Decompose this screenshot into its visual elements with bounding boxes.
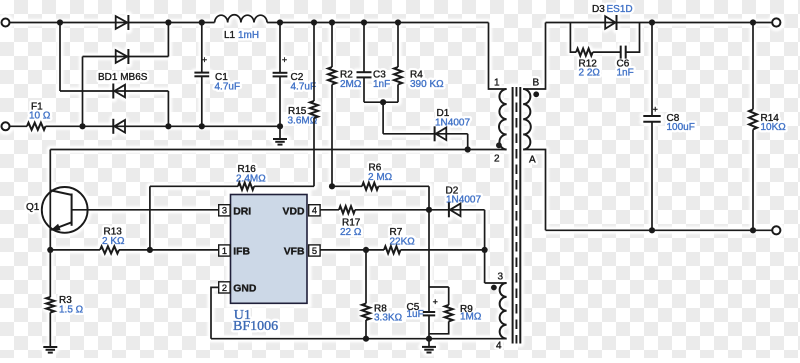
svg-text:+: + [282,55,287,65]
svg-text:3: 3 [498,272,504,283]
svg-text:2: 2 [494,154,500,165]
svg-text:+: + [653,104,658,114]
svg-text:100uF: 100uF [667,122,695,133]
svg-text:1nF: 1nF [617,68,634,79]
svg-text:D3: D3 [592,4,605,15]
svg-text:22 Ω: 22 Ω [340,227,362,238]
svg-text:1.5 Ω: 1.5 Ω [59,304,84,315]
svg-text:ES1D: ES1D [607,4,633,15]
svg-text:L1: L1 [224,30,236,41]
svg-text:4: 4 [312,206,317,216]
svg-text:1MΩ: 1MΩ [460,311,482,322]
svg-text:A: A [529,155,536,166]
svg-text:3: 3 [222,206,227,216]
svg-text:2: 2 [222,283,227,293]
svg-text:1N4007: 1N4007 [446,195,481,206]
svg-text:VFB: VFB [284,247,305,258]
svg-text:3.3KΩ: 3.3KΩ [374,313,403,324]
svg-text:1: 1 [222,246,227,256]
svg-text:IFB: IFB [233,247,250,258]
svg-text:1uF: 1uF [407,309,424,320]
svg-text:4.7uF: 4.7uF [215,82,241,93]
svg-text:1nF: 1nF [373,79,390,90]
svg-text:Q1: Q1 [26,202,40,213]
svg-text:5: 5 [312,246,317,256]
svg-text:1N4007: 1N4007 [435,117,470,128]
svg-text:4: 4 [496,341,502,352]
svg-text:390 KΩ: 390 KΩ [410,79,444,90]
svg-text:2 2Ω: 2 2Ω [579,68,601,79]
svg-text:2 MΩ: 2 MΩ [368,172,393,183]
svg-text:DRI: DRI [233,206,251,217]
svg-text:GND: GND [233,284,257,295]
svg-text:1mH: 1mH [238,30,259,41]
svg-text:10KΩ: 10KΩ [761,122,787,133]
svg-text:BD1 MB6S: BD1 MB6S [98,72,148,83]
svg-text:B: B [533,78,540,89]
svg-text:+: + [202,55,207,65]
svg-text:2MΩ: 2MΩ [340,79,362,90]
svg-text:22KΩ: 22KΩ [390,236,416,247]
svg-text:+: + [433,297,438,307]
svg-text:VDD: VDD [283,206,305,217]
svg-text:4.7uF: 4.7uF [291,82,317,93]
svg-text:BF1006: BF1006 [233,319,278,334]
svg-text:10 Ω: 10 Ω [29,110,51,121]
svg-text:1: 1 [494,78,500,89]
svg-text:2 KΩ: 2 KΩ [102,236,125,247]
